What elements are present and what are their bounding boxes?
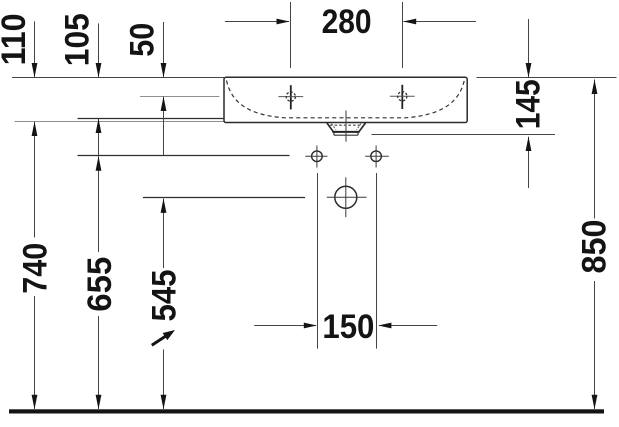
svg-text:655: 655	[81, 257, 119, 312]
svg-text:280: 280	[322, 3, 372, 41]
svg-text:740: 740	[17, 243, 55, 294]
svg-text:850: 850	[576, 220, 614, 274]
svg-text:110: 110	[0, 13, 33, 65]
svg-text:150: 150	[322, 308, 374, 346]
svg-text:145: 145	[509, 79, 547, 129]
svg-text:105: 105	[58, 13, 96, 66]
svg-text:50: 50	[123, 23, 161, 57]
svg-text:545: 545	[146, 270, 184, 322]
